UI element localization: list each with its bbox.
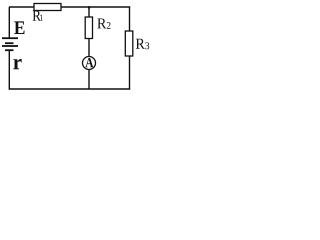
wire: middle branch, R2 down to ammeter: [88, 39, 90, 58]
node: junction of middle branch with top wire: [88, 6, 90, 8]
wire: middle branch, ammeter down to bottom node: [88, 70, 90, 90]
label R2: [97, 18, 110, 28]
label E (emf): [14, 21, 24, 34]
wire: top side, R2 node to top-right corner: [89, 6, 130, 8]
wire: top side, R1 to junction node of R2 branch: [61, 6, 89, 8]
resistor R2 (vertical box on middle branch): [85, 17, 92, 39]
resistor R3 (vertical box on right wire): [125, 31, 133, 56]
wire: top side, left corner to resistor R1: [9, 6, 35, 8]
wire: left side, battery negative plate down to bottom-left corner: [8, 50, 10, 89]
battery cell E: plate 2 (short): [5, 42, 14, 44]
resistor R1 (box on top wire): [34, 4, 61, 11]
label R1: [33, 11, 43, 21]
battery cell E: plate 1 (long): [2, 37, 18, 39]
battery cell E: plate 3 (long): [2, 45, 18, 47]
wire: right side, top-right corner down to R3: [129, 7, 131, 32]
wire: bottom side, ammeter branch node to bottom-right corner: [89, 88, 130, 90]
label R3: [136, 39, 149, 49]
wire: bottom side, left corner to ammeter branch node: [9, 88, 89, 90]
wire: right side, R3 down to bottom-right corner: [129, 56, 131, 89]
wire: middle branch, top node down to R2: [88, 7, 90, 18]
ammeter A (circle): [83, 57, 96, 70]
wire: left side, top corner down to battery positive plate: [8, 7, 10, 38]
label r (internal resistance): [13, 59, 21, 69]
battery cell E: plate 4 (short): [5, 49, 14, 51]
label A inside ammeter: [85, 58, 93, 67]
